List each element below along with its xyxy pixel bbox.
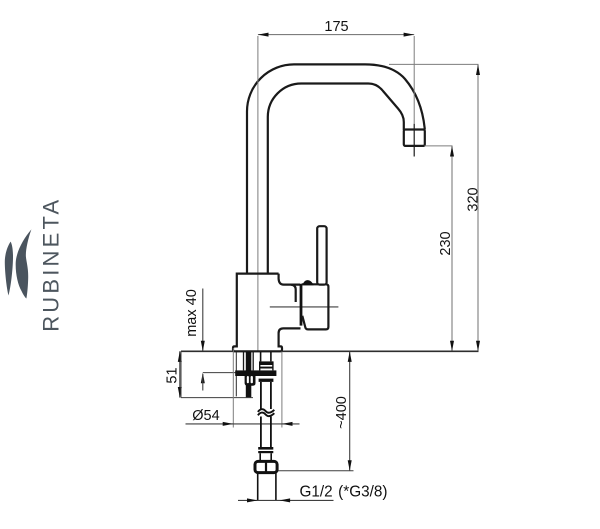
dim 320 line <box>477 64 479 351</box>
svg-text:max 40: max 40 <box>184 289 200 337</box>
dim 175 line <box>258 34 414 36</box>
logo leaf small <box>5 242 13 296</box>
dim 51 side connector <box>180 351 182 397</box>
tail pipe G1/2 <box>257 473 259 501</box>
aerator centerline <box>413 124 415 157</box>
countertop line <box>181 350 479 352</box>
dim 175 arrows <box>258 33 414 37</box>
svg-text:Ø54: Ø54 <box>192 408 219 424</box>
svg-text:~400: ~400 <box>334 396 350 429</box>
spout outer outline <box>247 64 425 274</box>
cartridge centerline <box>270 306 339 308</box>
svg-text:175: 175 <box>324 19 348 35</box>
faucet body outline <box>233 274 301 352</box>
dim max40 line upper <box>202 289 204 352</box>
svg-text:230: 230 <box>438 231 454 255</box>
hose ferrule <box>258 447 273 450</box>
hose end stub <box>259 453 261 461</box>
dim 230 arrows <box>450 146 454 351</box>
dim 175 right extension <box>413 36 415 124</box>
handle cap <box>302 284 329 329</box>
dim max40 arrows <box>201 341 205 384</box>
dim 320 top extension <box>389 63 479 65</box>
hose tube upper <box>260 382 262 410</box>
dim max40 line lower tail <box>202 374 204 391</box>
spout inner outline <box>268 83 404 274</box>
svg-text:RUBINETA: RUBINETA <box>39 197 64 332</box>
hose break squiggle <box>258 409 274 416</box>
dim 51 line <box>179 351 181 397</box>
dim 320 arrows <box>476 64 480 351</box>
dim G1/2 arrows <box>247 498 290 502</box>
hose nipple <box>260 352 262 361</box>
hose tube lower <box>260 417 262 448</box>
washer bar <box>235 370 276 376</box>
svg-text:G1/2(*G3/8): G1/2(*G3/8) <box>300 484 388 501</box>
hose nut <box>255 461 277 472</box>
hose collar band <box>259 379 274 382</box>
dim O54 arrows <box>223 422 293 426</box>
dim max40 extension <box>203 372 236 374</box>
mounting nut <box>245 376 256 386</box>
svg-text:51: 51 <box>164 367 180 383</box>
body top-right step <box>279 274 301 285</box>
dim 400 bottom extension <box>278 470 354 472</box>
lever root wedge <box>302 280 313 285</box>
dim G1/2 line <box>238 499 334 501</box>
dim O54 right extension <box>281 352 283 428</box>
dim 51 bottom extension <box>181 397 253 399</box>
handle cap shadow band <box>300 284 303 326</box>
dim 51 arrows <box>178 351 182 397</box>
dim 230 extension from aerator <box>425 145 453 147</box>
dim O54 line <box>186 423 300 425</box>
svg-text:320: 320 <box>465 187 481 211</box>
handle lever <box>317 226 326 284</box>
dim 400 line <box>349 351 351 471</box>
dim O54 left extension <box>232 348 234 428</box>
logo leaf blade <box>16 229 32 298</box>
cartridge housing right edge <box>291 285 296 302</box>
riser centerline / dim 175 left extension <box>257 36 259 351</box>
dim 400 arrows <box>348 351 352 471</box>
threaded stud <box>246 352 252 397</box>
aerator <box>404 130 425 146</box>
hardware left line <box>235 352 237 396</box>
mounting shank <box>243 352 245 370</box>
hose hex nut <box>260 361 273 365</box>
dim 230 line <box>451 146 453 351</box>
